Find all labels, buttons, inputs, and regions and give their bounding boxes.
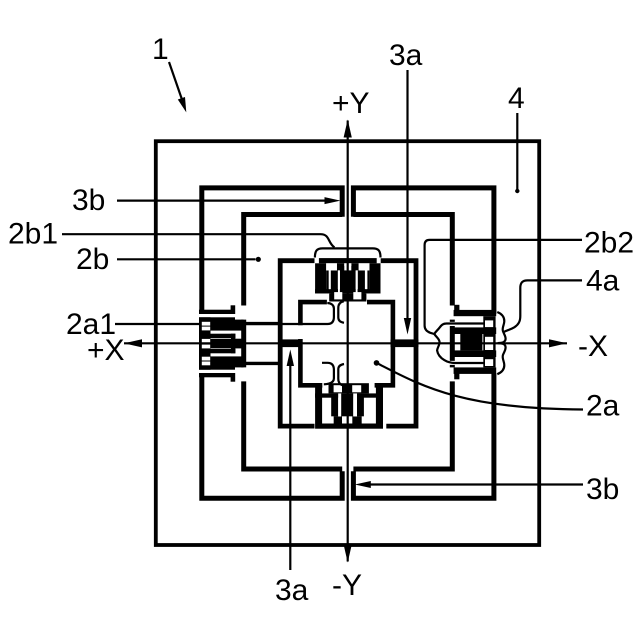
left comb: comb finger top [199,310,234,314]
second frame (outer 3b spring bar) [199,185,494,500]
top comb 2b1: comb wall turn right [358,289,381,293]
bottom comb: comb wall right [376,386,383,424]
svg-text:3a: 3a [275,574,309,607]
top comb 2b1: comb slot [329,270,331,289]
svg-text:3b: 3b [72,184,105,217]
top comb 2b1: comb wall turn left [315,289,338,293]
right comb: comb column hole [485,320,493,327]
outer squiggle at right comb [497,312,505,374]
3b left leader [117,200,327,202]
2a1 leader inner segment and throat left wall [282,303,334,324]
bottom comb: comb wall turn right [357,393,383,397]
svg-text:2a: 2a [586,390,620,423]
3b right leader [368,483,583,485]
inner squiggle at right comb [434,324,484,364]
throat right wall [338,301,344,323]
top comb 2b1: comb base bar [329,293,366,301]
svg-text:-Y: -Y [332,569,362,602]
right comb: comb bar bottom [454,367,497,374]
bottom comb: comb riser left [331,393,338,416]
right comb: comb column hole [485,344,493,350]
bottom comb: comb wall left [315,386,322,424]
top comb 2b1: comb riser right [358,270,365,293]
svg-text:2b: 2b [76,243,109,276]
left comb: comb column hole [202,339,210,343]
right comb: comb bar third [454,350,497,357]
3a bottom leader [289,363,291,570]
top comb 2b1: comb slot [356,270,358,289]
svg-text:4: 4 [508,82,525,115]
bottom comb: comb finger right [352,416,362,423]
svg-text:2b2: 2b2 [584,227,634,260]
top comb 2b1: comb wall lip right [367,270,370,293]
bottom throat left wall [322,363,334,385]
label 1 arrowhead [178,97,187,112]
4 leader end dot [515,189,519,193]
right comb: comb column hole [485,359,493,366]
left comb: comb column hole [202,322,210,326]
2a leader dot [374,360,380,366]
bottom comb: comb wall turn left [315,393,338,397]
bottom comb: comb base hole [334,385,342,392]
2b leader dot [256,257,261,262]
proof mass 2a [298,300,395,388]
left comb: comb block lower [210,356,244,367]
right comb: comb column hole [485,337,493,343]
anchor block 2a1 left [278,339,302,347]
left comb: comb column hole [202,345,210,349]
top comb 2b1: comb wall lip left [326,270,329,293]
bottom comb: comb slot [353,398,356,417]
svg-text:+X: +X [87,334,125,367]
left comb: comb finger bottom nub [231,373,236,382]
left comb: comb column hole [202,362,210,366]
bottom comb: comb slot [338,398,341,417]
3a top arrowhead [404,318,411,335]
bottom comb: comb base bar [329,383,369,393]
left comb: comb column hole [202,327,210,331]
top comb 2b1: comb slot [344,263,351,270]
top comb 2b1: comb finger left [337,263,344,270]
3b right arrowhead [355,481,371,488]
frame 2b (drive frame) [278,258,419,428]
beam 4a left lower [244,362,280,365]
left comb: comb bar B2 [199,334,235,338]
anchor block right (2a1 mirror) [391,339,419,347]
outer frame 4 [156,141,539,545]
3b left arrowhead [325,197,341,204]
left comb: comb block upper [210,320,244,331]
top comb 2b1: comb slot [326,263,337,270]
4a leader [503,280,582,332]
right comb: comb bar top nub [454,305,459,311]
2b1 hat brace over top comb [315,248,381,257]
third frame (inner 3b spring bar) [241,212,455,471]
beam 4a left upper [244,322,280,325]
right comb: comb bar bottom nub [454,373,459,379]
right comb: comb center electrode [460,334,482,350]
2b1 leader [62,234,335,247]
2b leader [117,258,256,260]
-X arrowhead [549,339,567,347]
2a leader curve [377,363,584,410]
3a bottom arrowhead [287,350,294,367]
left comb: comb bar B1 [199,317,235,321]
bottom throat right wall [338,364,344,386]
bottom comb: comb slot [325,416,333,423]
svg-text:2b1: 2b1 [8,218,58,251]
top comb 2b1: comb base hole [334,292,342,299]
top comb 2b1: comb slot [338,270,340,289]
right comb: comb bar second [454,327,497,334]
left comb: comb bar B2b nub [231,344,235,354]
bottom comb: comb slot [362,416,371,423]
left comb: comb bar B2b [199,349,235,353]
left comb: comb column [199,317,211,369]
top comb 2b1: comb center electrode [340,266,356,293]
4 leader [516,113,518,191]
left comb: comb center block [210,339,244,349]
-Y arrowhead [344,545,352,563]
svg-text:+Y: +Y [332,87,370,120]
bottom comb: comb slot [342,416,352,423]
left comb: comb bar B2 nub [231,334,235,344]
left comb: comb finger top nub [231,305,236,314]
bottom comb: comb center electrode [341,393,353,416]
+X arrowhead [124,339,142,347]
+Y arrowhead [344,120,352,138]
top comb 2b1: comb base hole [353,292,361,299]
right comb: comb bar top [454,310,497,316]
svg-text:1: 1 [152,33,169,66]
3a top leader [406,70,408,320]
top comb 2b1: comb finger right [351,263,358,270]
top comb 2b1: comb slot [366,270,368,289]
left comb: comb finger bottom [199,373,234,377]
top comb 2b1: comb wall left [315,263,326,293]
top comb 2b1: comb wall right [369,263,380,293]
label 1 leader arrow [169,62,183,101]
top comb 2b1: comb rail [319,258,377,263]
Y axis line [347,121,349,562]
left comb: comb column hole [202,357,210,361]
svg-text:4a: 4a [586,265,620,298]
left comb: comb bar B1b [199,365,235,369]
bottom comb: comb base hole [352,385,361,392]
2a1 leader outer segment [115,323,200,325]
2b2 leader [425,240,582,334]
bottom comb: comb finger left [334,416,342,423]
svg-text:3a: 3a [389,39,423,72]
top comb 2b1: comb riser left [331,270,338,293]
bottom comb: comb rail [315,424,383,429]
svg-text:-X: -X [578,330,608,363]
top comb 2b1: comb slot [359,263,370,270]
X axis line [124,342,567,344]
svg-text:3b: 3b [586,473,619,506]
right comb: comb column [483,316,495,367]
bottom comb: comb riser right [357,393,364,416]
